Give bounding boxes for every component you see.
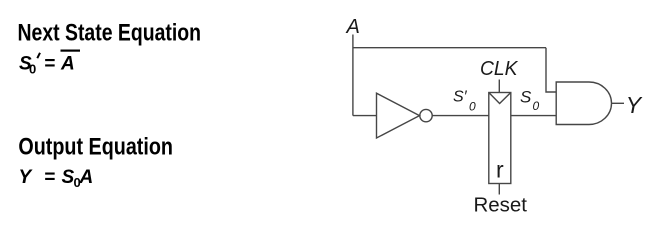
svg-text:A: A [79,167,94,188]
wire reset stub [498,184,500,195]
equation Y = S0A [19,167,94,190]
prime mark [37,53,40,58]
wire CLK stub [498,80,500,93]
wire top horizontal A to right [353,47,546,49]
svg-text:Next State Equation: Next State Equation [18,19,202,46]
wire AND output [612,102,625,104]
svg-text:r: r [496,156,504,182]
svg-text:Output Equation: Output Equation [18,133,173,160]
wire inverter output to flip-flop [432,115,489,117]
inverter U1 [377,93,433,138]
wire A vertical drop [352,35,354,116]
svg-text:Y: Y [19,167,34,188]
svg-text:CLK: CLK [480,58,519,80]
wire right vertical down to AND top input [546,48,556,92]
svg-text:=: = [44,167,55,188]
node S'0 label [453,89,476,114]
svg-text:S: S [520,88,532,107]
wire inverter input [353,115,377,117]
svg-text:0: 0 [533,99,540,113]
svg-text:A: A [60,54,75,75]
flip-flop U2 [489,93,511,184]
equation S0' = Abar [19,54,36,77]
svg-text:=: = [44,54,55,75]
svg-text:S′: S′ [453,89,468,106]
svg-text:Reset: Reset [474,194,528,216]
svg-text:Y: Y [626,92,643,118]
svg-text:0: 0 [29,62,36,77]
svg-text:0: 0 [469,100,476,114]
and gate U3 [556,82,611,125]
node S0 label [520,88,540,114]
wire flip-flop output to AND bottom input [511,115,556,117]
